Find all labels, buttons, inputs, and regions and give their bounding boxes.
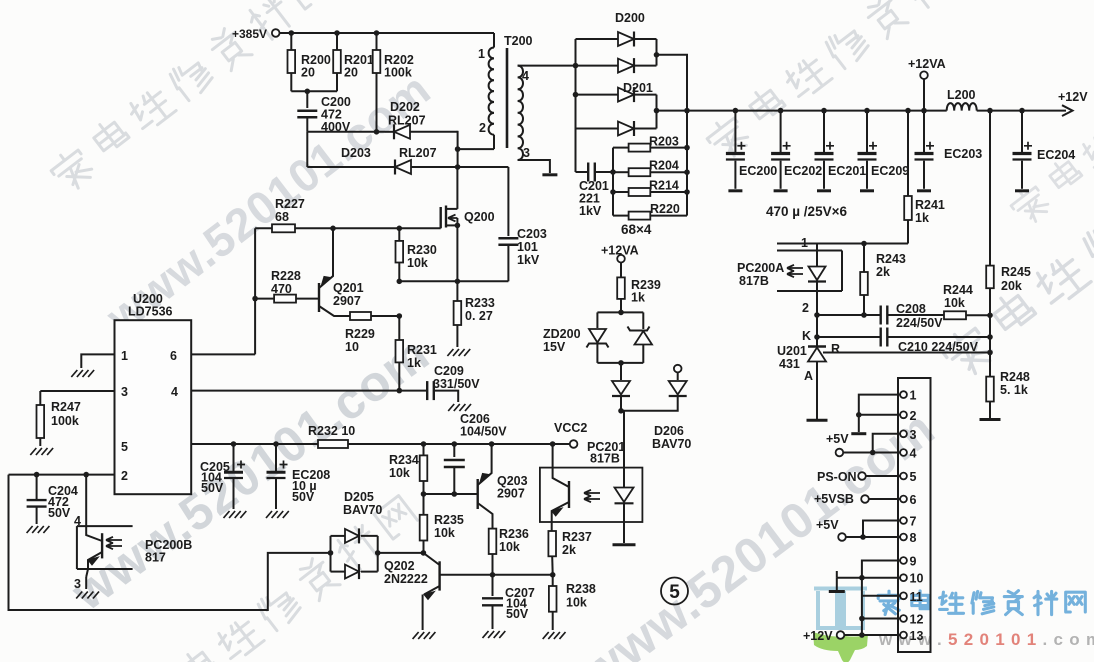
resistor R238 bbox=[552, 575, 554, 586]
svg-text:2: 2 bbox=[910, 409, 917, 423]
capacitor C205 bbox=[233, 444, 235, 471]
svg-text:10k: 10k bbox=[499, 540, 520, 554]
wire D206 node down to PC201 bbox=[621, 410, 624, 412]
svg-text:A: A bbox=[804, 369, 813, 383]
watermark band: Chinese top-left bbox=[47, 0, 329, 195]
transistor Q201 2907 bbox=[318, 283, 320, 312]
svg-text:R203: R203 bbox=[649, 135, 679, 149]
svg-text:50V: 50V bbox=[201, 481, 224, 495]
optocoupler PC200A LED bbox=[816, 244, 818, 267]
ground U200 pin1 bbox=[71, 370, 77, 377]
IC U200 LD7536 body bbox=[115, 320, 192, 494]
connector pin 4 bbox=[900, 449, 907, 456]
svg-text:U201: U201 bbox=[777, 344, 807, 358]
svg-text:Q202: Q202 bbox=[384, 559, 415, 573]
svg-text:4: 4 bbox=[910, 447, 917, 461]
svg-text:5: 5 bbox=[910, 470, 917, 484]
resistor R234 bbox=[423, 444, 425, 455]
ground bar T200 pin3 bbox=[542, 173, 557, 176]
junction dots VCC2 line bbox=[231, 441, 237, 447]
svg-text:2907: 2907 bbox=[497, 487, 525, 501]
resistor R244 bbox=[944, 311, 966, 319]
wire pin 13 +12V terminal bbox=[844, 634, 900, 636]
svg-text:LD7536: LD7536 bbox=[128, 305, 173, 319]
diode pair D205 BAV70 bbox=[328, 550, 334, 556]
wire PC200A pin2 line bbox=[814, 312, 820, 318]
ground C204 bbox=[27, 526, 33, 533]
resistor R200 bbox=[290, 33, 292, 50]
wire C200 node down to D203 row bbox=[306, 132, 308, 167]
wire pins 9-13 group bbox=[862, 561, 900, 636]
svg-text:R230: R230 bbox=[407, 243, 437, 257]
svg-text:T200: T200 bbox=[504, 34, 533, 48]
svg-text:10k: 10k bbox=[389, 466, 410, 480]
svg-text:1: 1 bbox=[121, 349, 128, 363]
svg-text:100k: 100k bbox=[51, 414, 79, 428]
svg-text:EC203: EC203 bbox=[944, 147, 982, 161]
connector pin 5 bbox=[900, 473, 907, 480]
svg-text:C208: C208 bbox=[896, 302, 926, 316]
diode D203 RL207 bbox=[307, 166, 394, 168]
capacitor C203 bbox=[507, 167, 509, 236]
svg-text:15V: 15V bbox=[543, 340, 566, 354]
wire Q203 base line bbox=[424, 493, 478, 495]
svg-text:R231: R231 bbox=[407, 343, 437, 357]
resistor R220 bbox=[613, 215, 629, 217]
connector pin 9 bbox=[900, 557, 907, 564]
svg-text:68: 68 bbox=[275, 210, 289, 224]
svg-text:3: 3 bbox=[910, 428, 917, 442]
svg-text:www.520101.com: www.520101.com bbox=[570, 400, 945, 662]
svg-text:101: 101 bbox=[517, 240, 538, 254]
svg-text:C203: C203 bbox=[517, 227, 547, 241]
svg-text:817B: 817B bbox=[739, 274, 769, 288]
wire +385V rail bbox=[280, 32, 495, 34]
svg-text:2k: 2k bbox=[562, 543, 576, 557]
svg-text:EC202: EC202 bbox=[784, 164, 822, 178]
svg-text:RL207: RL207 bbox=[399, 146, 437, 160]
svg-text:50V: 50V bbox=[506, 607, 529, 621]
resistor R236 bbox=[489, 529, 497, 554]
diode D200 pair bbox=[576, 38, 619, 40]
svg-text:R235: R235 bbox=[434, 513, 464, 527]
connector CN box bbox=[898, 378, 931, 652]
svg-text:+12V: +12V bbox=[803, 629, 833, 643]
connector pin 2 bbox=[900, 411, 907, 418]
svg-text:R236: R236 bbox=[499, 527, 529, 541]
capacitor EC208 bbox=[275, 444, 277, 471]
watermark band: Chinese near EC204 bbox=[1007, 19, 1094, 227]
transformer T200 primary winding pin1-pin2 bbox=[493, 33, 495, 48]
svg-text:R234: R234 bbox=[389, 453, 419, 467]
svg-text:K: K bbox=[802, 329, 811, 343]
ground R233 bbox=[447, 349, 453, 356]
svg-text:R238: R238 bbox=[566, 582, 596, 596]
wire U200 pin1 to ground bbox=[81, 354, 114, 368]
svg-text:1kV: 1kV bbox=[579, 204, 602, 218]
capacitor C209 bbox=[426, 381, 428, 400]
svg-text:VCC2: VCC2 bbox=[554, 421, 587, 435]
svg-text:4: 4 bbox=[522, 69, 529, 83]
svg-text:9: 9 bbox=[910, 555, 917, 569]
capacitor C204 bbox=[36, 475, 38, 499]
wire T200 pin4 to rectifier rail bbox=[518, 65, 576, 67]
svg-text:11: 11 bbox=[910, 590, 923, 604]
wire +12V output rail bbox=[657, 110, 947, 112]
ground C207 bbox=[483, 631, 489, 638]
svg-text:+5V: +5V bbox=[816, 518, 839, 532]
wire snubber junction vertical bbox=[457, 131, 459, 167]
wire Q202 collector node line bbox=[490, 572, 496, 578]
ground PC200B pin3 bbox=[76, 592, 82, 599]
svg-text:1kV: 1kV bbox=[517, 253, 540, 267]
capacitor EC200 bbox=[733, 108, 739, 114]
svg-text:4: 4 bbox=[171, 385, 178, 399]
resistor R235 bbox=[423, 494, 425, 515]
wire pin6 riser bbox=[254, 228, 256, 354]
optocoupler PC200A body bbox=[777, 250, 842, 252]
resistor R245 bbox=[989, 111, 991, 266]
watermark band: Chinese right edge bbox=[939, 110, 1094, 381]
resistor network right rail bbox=[686, 111, 688, 216]
svg-text:1: 1 bbox=[478, 47, 485, 61]
svg-text:2907: 2907 bbox=[333, 294, 361, 308]
svg-text:R229: R229 bbox=[345, 327, 375, 341]
svg-text:10k: 10k bbox=[944, 296, 965, 310]
wire U200 pin2 line bbox=[9, 474, 115, 476]
svg-text:ZD200: ZD200 bbox=[543, 327, 581, 341]
svg-text:100k: 100k bbox=[384, 66, 412, 80]
svg-text:6: 6 bbox=[910, 493, 917, 507]
diode D206 left half bbox=[612, 381, 630, 395]
svg-text:+12V: +12V bbox=[1058, 90, 1088, 104]
capacitor EC201 bbox=[821, 108, 827, 114]
svg-text:R228: R228 bbox=[271, 269, 301, 283]
svg-text:2: 2 bbox=[479, 121, 486, 135]
svg-text:817: 817 bbox=[145, 551, 166, 565]
svg-text:Q201: Q201 bbox=[333, 281, 364, 295]
diode D202 RL207 bbox=[385, 131, 401, 133]
capacitor C208 bbox=[880, 306, 882, 325]
capacitor C207 bbox=[492, 575, 494, 596]
svg-text:+5VSB: +5VSB bbox=[814, 492, 854, 506]
wire PC200A pin1 line bbox=[777, 243, 908, 245]
svg-text:224/50V: 224/50V bbox=[896, 316, 943, 330]
svg-text:R243: R243 bbox=[876, 252, 906, 266]
resistor R214 bbox=[613, 191, 629, 193]
svg-text:R244: R244 bbox=[943, 283, 973, 297]
connector pin 7 bbox=[900, 517, 907, 524]
diode D206 right half with terminal bbox=[674, 365, 682, 373]
svg-text:13: 13 bbox=[910, 629, 924, 643]
resistor R231 bbox=[398, 316, 400, 340]
resistor R239 bbox=[620, 263, 622, 278]
wire D200 outputs join bbox=[656, 39, 658, 66]
resistor R243 bbox=[863, 244, 865, 273]
svg-text:3: 3 bbox=[74, 577, 81, 591]
transformer T200 secondary winding pin4-pin3 bbox=[518, 66, 523, 160]
svg-text:PC200A: PC200A bbox=[737, 261, 784, 275]
optocoupler PC201 body bbox=[540, 468, 643, 522]
diode D201 pair bbox=[576, 94, 619, 96]
capacitor EC203 bbox=[923, 111, 925, 153]
junction dots on +385V rail bbox=[289, 30, 295, 36]
wire Q200 source line bbox=[399, 280, 508, 282]
wire U200 pin3 bbox=[40, 390, 114, 392]
connector pin 3 bbox=[900, 430, 907, 437]
wire gate line R227 bbox=[255, 227, 272, 229]
logo book icon bbox=[814, 589, 867, 631]
svg-text:R227: R227 bbox=[275, 197, 305, 211]
capacitor EC202 bbox=[778, 108, 784, 114]
watermark band: Chinese top-right bbox=[703, 0, 985, 163]
shunt regulator U201 431 bbox=[816, 315, 818, 347]
svg-text:R245: R245 bbox=[1001, 265, 1031, 279]
resistor network left rail bbox=[612, 148, 614, 216]
svg-text:3: 3 bbox=[523, 146, 530, 160]
ground C209 bbox=[448, 404, 454, 411]
wire pins 7-8 to +5V terminal bbox=[863, 521, 900, 538]
svg-text:68×4: 68×4 bbox=[621, 222, 652, 237]
resistor R247 bbox=[39, 391, 41, 405]
svg-text:5: 5 bbox=[669, 582, 680, 603]
svg-text:817B: 817B bbox=[590, 452, 620, 466]
wire D203 row to C203 branch bbox=[458, 166, 509, 168]
svg-text:8: 8 bbox=[910, 531, 917, 545]
svg-text:BAV70: BAV70 bbox=[343, 503, 382, 517]
svg-text:D201: D201 bbox=[623, 81, 653, 95]
wire rail after L200 with +12V arrow bbox=[977, 110, 1066, 112]
wire D201 outputs join to +12V rail bbox=[656, 95, 658, 129]
svg-text:C209: C209 bbox=[434, 364, 464, 378]
resistor R204 bbox=[613, 171, 629, 173]
svg-text:5: 5 bbox=[121, 440, 128, 454]
svg-text:104/50V: 104/50V bbox=[460, 425, 507, 439]
resistor R248 bbox=[989, 353, 991, 377]
transistor Q203 2907 bbox=[477, 479, 479, 509]
svg-text:50V: 50V bbox=[48, 506, 71, 520]
svg-text:1k: 1k bbox=[915, 211, 929, 225]
inductor L200 bbox=[947, 103, 977, 111]
resistor R233 bbox=[456, 281, 458, 301]
transistor Q202 2N2222 bbox=[438, 561, 440, 590]
svg-text:EC200: EC200 bbox=[739, 164, 777, 178]
svg-text:EC201: EC201 bbox=[828, 164, 866, 178]
svg-text:20k: 20k bbox=[1001, 279, 1022, 293]
optocoupler PC201 phototransistor bbox=[552, 444, 554, 476]
ground Q202 emitter bbox=[413, 632, 419, 639]
connector pin 11 bbox=[900, 592, 907, 599]
ground bar PC201 LED bbox=[613, 543, 636, 546]
svg-text:R232 10: R232 10 bbox=[308, 424, 355, 438]
optocoupler PC200B body bbox=[77, 525, 133, 527]
svg-text:+12VA: +12VA bbox=[908, 57, 946, 71]
resistor R241 bbox=[905, 108, 911, 114]
transformer T200 core bbox=[506, 48, 509, 148]
svg-text:R204: R204 bbox=[649, 159, 679, 173]
svg-text:+385V: +385V bbox=[232, 27, 267, 41]
svg-text:D200: D200 bbox=[615, 11, 645, 25]
svg-text:R237: R237 bbox=[562, 530, 592, 544]
svg-text:10k: 10k bbox=[434, 526, 455, 540]
logo green underline swoosh bbox=[813, 632, 868, 662]
wire C200 node horizontal bbox=[307, 131, 385, 133]
svg-text:D203: D203 bbox=[341, 146, 371, 160]
wire U200 pin6 bbox=[191, 353, 255, 355]
svg-text:2: 2 bbox=[802, 301, 809, 315]
svg-text:20: 20 bbox=[344, 66, 358, 80]
svg-text:L200: L200 bbox=[947, 88, 976, 102]
svg-text:RL207: RL207 bbox=[388, 114, 426, 128]
wire pin 6 +5VSB bbox=[869, 498, 900, 500]
MOSFET Q200 bbox=[440, 207, 442, 228]
svg-text:4: 4 bbox=[74, 514, 81, 528]
watermark band: Chinese bottom-left bbox=[135, 496, 417, 662]
svg-text:470: 470 bbox=[271, 282, 292, 296]
capacitor C201 bbox=[576, 171, 589, 173]
svg-text:2k: 2k bbox=[876, 265, 890, 279]
svg-text:EC204: EC204 bbox=[1037, 148, 1075, 162]
svg-text:D205: D205 bbox=[344, 490, 374, 504]
ground R247 bbox=[30, 448, 36, 455]
svg-text:+5V: +5V bbox=[826, 432, 849, 446]
svg-text:5. 1k: 5. 1k bbox=[1000, 383, 1028, 397]
wire diode rail down to C201 bbox=[575, 129, 577, 173]
wire U200 pin5 VCC2 line bbox=[191, 443, 318, 445]
ground bar R248 bbox=[980, 418, 1001, 421]
svg-text:20: 20 bbox=[301, 66, 315, 80]
svg-text:Q200: Q200 bbox=[464, 210, 495, 224]
svg-text:BAV70: BAV70 bbox=[652, 437, 691, 451]
resistor R237 bbox=[551, 522, 553, 531]
capacitor C206 bbox=[453, 444, 455, 457]
ground R238 bbox=[543, 632, 549, 639]
wire pin10 ground stub bbox=[837, 577, 862, 579]
logo Chinese title bbox=[878, 591, 900, 614]
svg-text:R241: R241 bbox=[915, 198, 945, 212]
resistor R228 bbox=[255, 298, 274, 300]
wire T200 pin3 to ground bbox=[518, 160, 550, 173]
svg-text:10: 10 bbox=[910, 572, 924, 586]
svg-text:D202: D202 bbox=[390, 100, 420, 114]
wire U200 pin4 line bbox=[191, 390, 427, 392]
svg-text:331/50V: 331/50V bbox=[433, 377, 480, 391]
svg-text:10: 10 bbox=[345, 340, 359, 354]
svg-text:2: 2 bbox=[121, 469, 128, 483]
page marker circled 5 bbox=[661, 578, 688, 605]
ground bar pins 1-2 bbox=[851, 432, 866, 435]
svg-text:EC209: EC209 bbox=[871, 164, 909, 178]
svg-text:3: 3 bbox=[121, 385, 128, 399]
connector pin 10 bbox=[900, 574, 907, 581]
svg-text:0. 27: 0. 27 bbox=[465, 309, 493, 323]
svg-text:470 µ /25V×6: 470 µ /25V×6 bbox=[766, 204, 847, 219]
wire R200/R201 bottoms join bbox=[291, 90, 337, 92]
svg-text:PS-ON: PS-ON bbox=[817, 470, 857, 484]
svg-text:R: R bbox=[831, 342, 840, 356]
svg-text:1k: 1k bbox=[631, 291, 645, 305]
resistor R201 bbox=[336, 33, 338, 50]
resistor R203 bbox=[613, 147, 629, 149]
svg-text:431: 431 bbox=[779, 357, 800, 371]
svg-text:D206: D206 bbox=[654, 424, 684, 438]
capacitor EC209 bbox=[864, 108, 870, 114]
resistor R229 bbox=[350, 312, 371, 320]
svg-text:10k: 10k bbox=[407, 256, 428, 270]
ground bar pin10 bbox=[829, 590, 845, 593]
connector pin 1 bbox=[900, 391, 907, 398]
capacitor C200 bbox=[306, 91, 308, 108]
wire ZD200 to D206 node bbox=[618, 360, 624, 366]
optocoupler PC201 LED bbox=[623, 411, 625, 487]
svg-text:R220: R220 bbox=[650, 202, 680, 216]
svg-text:12: 12 bbox=[910, 613, 924, 627]
wire pins 3-4 to +5V terminal bbox=[873, 434, 900, 453]
rectifier diode rail left vertical bbox=[575, 39, 577, 129]
connector pin 6 bbox=[900, 496, 907, 503]
resistor R202 bbox=[376, 33, 378, 50]
capacitor EC204 bbox=[1019, 108, 1025, 114]
svg-text:R214: R214 bbox=[649, 179, 679, 193]
svg-text:10k: 10k bbox=[566, 596, 587, 610]
resistor R232 bbox=[318, 440, 348, 448]
connector pin 12 bbox=[900, 615, 907, 622]
svg-text:R233: R233 bbox=[465, 296, 495, 310]
svg-text:R248: R248 bbox=[1000, 370, 1030, 384]
svg-text:2N2222: 2N2222 bbox=[384, 572, 428, 586]
svg-text:1k: 1k bbox=[407, 356, 421, 370]
wire pins 1-2 tie bbox=[859, 395, 900, 415]
wire pin 5 PS-ON bbox=[866, 475, 900, 477]
svg-text:R247: R247 bbox=[51, 400, 81, 414]
connector pin 8 bbox=[900, 534, 907, 541]
svg-text:6: 6 bbox=[170, 349, 177, 363]
resistor R227 bbox=[272, 224, 295, 232]
zener pair ZD200 15V bbox=[618, 310, 624, 316]
svg-text:1: 1 bbox=[801, 236, 808, 250]
svg-text:50V: 50V bbox=[292, 490, 315, 504]
svg-text:1: 1 bbox=[910, 389, 917, 403]
connector pin 13 bbox=[900, 632, 907, 639]
wire feedback loop around PC200B bbox=[9, 475, 331, 610]
resistor R230 bbox=[398, 228, 400, 241]
svg-text:7: 7 bbox=[910, 515, 917, 529]
ground bar U201 anode bbox=[807, 419, 828, 422]
